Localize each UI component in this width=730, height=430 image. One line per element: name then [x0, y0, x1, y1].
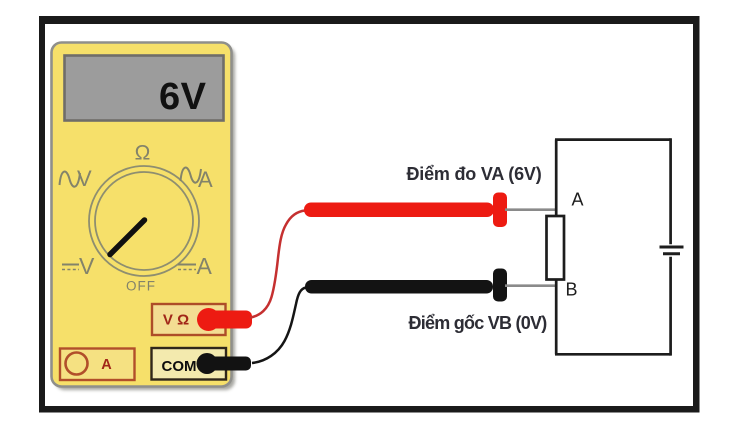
svg-text:B: B — [566, 280, 578, 300]
svg-text:6V: 6V — [159, 76, 207, 118]
dial label AC amps — [181, 167, 214, 192]
wire left side of loop — [555, 140, 558, 355]
black probe — [305, 269, 507, 302]
svg-text:A: A — [198, 167, 213, 192]
wire bottom side of loop — [555, 353, 671, 356]
svg-text:A: A — [572, 190, 584, 210]
svg-text:V Ω: V Ω — [163, 312, 189, 329]
wire right side upper — [669, 138, 672, 244]
wire right side lower — [669, 257, 672, 356]
rotary dial rings — [89, 166, 199, 276]
svg-text:COM: COM — [162, 358, 197, 375]
LCD display showing 6V — [65, 56, 224, 121]
red probe tip lead to node A — [505, 208, 557, 211]
dial label AC volts — [60, 166, 93, 191]
red test lead wire — [250, 211, 305, 318]
V-ohm jack box — [152, 304, 226, 335]
black test lead wire — [252, 288, 306, 364]
black probe tip lead to node B — [505, 284, 557, 287]
dial label DC volts — [62, 253, 95, 279]
dial label DC amps — [178, 253, 213, 279]
COM jack box — [152, 348, 227, 380]
wire top side of loop — [555, 138, 671, 141]
svg-text:Điểm đo VA (6V): Điểm đo VA (6V) — [406, 164, 541, 184]
knob pointer — [110, 220, 145, 255]
svg-text:A: A — [197, 253, 213, 279]
svg-text:Điểm gốc VB (0V): Điểm gốc VB (0V) — [408, 313, 547, 333]
red banana plug in V-ohm jack — [197, 308, 252, 331]
svg-text:OFF: OFF — [126, 279, 156, 294]
resistor R1 — [547, 216, 565, 280]
multimeter DMM body — [52, 43, 236, 391]
battery cell B1 — [660, 247, 684, 254]
svg-text:V: V — [79, 253, 95, 279]
svg-text:Ω: Ω — [135, 142, 151, 165]
svg-text:V: V — [77, 166, 92, 191]
black banana plug in COM jack — [197, 353, 252, 374]
A jack box — [60, 349, 135, 381]
red probe — [304, 193, 507, 228]
svg-text:A: A — [101, 357, 112, 373]
